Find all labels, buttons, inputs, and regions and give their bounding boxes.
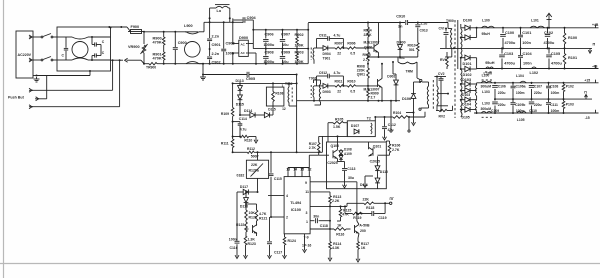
resistor R106 2.7K [386, 141, 400, 155]
diode D116 [240, 198, 249, 209]
capacitor C904 [233, 16, 257, 30]
resistor R113 2.2K [310, 192, 341, 204]
wire emitter rail [367, 56, 400, 58]
wire [237, 191, 247, 240]
wire to fuse [111, 26, 131, 32]
protection box [327, 142, 387, 189]
capacitor C [62, 37, 69, 60]
svg-text:P102: P102 [566, 84, 574, 88]
wire dc top rail [252, 29, 308, 31]
chassis arrow [546, 13, 552, 28]
diode D114 [239, 109, 255, 118]
resistor R103 [562, 99, 574, 113]
svg-text:500P: 500P [251, 154, 260, 158]
svg-text:10u: 10u [282, 60, 289, 64]
resistor R122 [236, 220, 247, 236]
svg-text:TRM: TRM [406, 70, 414, 74]
svg-text:A-50В: A-50В [359, 223, 370, 227]
wire t901 bottom [419, 108, 429, 110]
capacitor C903 100n [221, 21, 235, 64]
svg-text:C102: C102 [544, 31, 553, 35]
transformer T900 core [454, 20, 456, 118]
svg-text:RV2: RV2 [439, 115, 446, 119]
svg-text:4700u: 4700u [504, 62, 515, 66]
transformer T902 box R108 [266, 87, 284, 106]
wire over IC [288, 168, 309, 172]
EMI filter box [57, 27, 111, 71]
capacitor C110 220u [529, 99, 542, 113]
label pin 1 [282, 84, 284, 88]
wire [57, 37, 70, 60]
wire +5 rail [477, 82, 599, 84]
label L103 300uM [481, 85, 492, 112]
svg-text:P103: P103 [566, 102, 574, 106]
resistor R905 2.7 [363, 48, 371, 64]
svg-text:C103: C103 [504, 52, 513, 56]
svg-text:L102: L102 [530, 71, 539, 75]
svg-text:IC100: IC100 [291, 208, 301, 212]
node mid cell2 [314, 85, 317, 87]
pin stubs top [288, 171, 309, 176]
inductor L105a [481, 111, 492, 117]
svg-text:R112: R112 [247, 147, 255, 151]
svg-text:R104: R104 [393, 111, 401, 115]
svg-text:D116: D116 [240, 204, 248, 208]
diode D115 [236, 95, 244, 115]
terminal gnd 1 [588, 43, 595, 54]
svg-text:1.5K: 1.5K [333, 125, 341, 129]
diode D113 [236, 79, 244, 95]
svg-text:R118: R118 [366, 206, 374, 210]
svg-text:L105: L105 [517, 118, 525, 122]
svg-text:TL494: TL494 [290, 201, 302, 205]
svg-text:A109: A109 [344, 152, 352, 156]
diode D101 [460, 55, 472, 66]
svg-text:220u: 220u [534, 91, 542, 95]
capacitor C107 220u [529, 83, 542, 99]
svg-text:2.7K: 2.7K [392, 148, 400, 152]
resistor R908 220K [357, 63, 370, 86]
wire [470, 27, 478, 29]
resistor R101 [563, 48, 577, 68]
wire gnd rail from T900 [453, 47, 455, 49]
resistor R900 470K [153, 32, 166, 45]
wire [32, 59, 114, 90]
wire base q101 [378, 154, 387, 156]
svg-text:C2025: C2025 [327, 161, 337, 165]
box T2 D107 [347, 117, 375, 137]
svg-text:C2025: C2025 [370, 160, 380, 164]
pin 2 left [270, 216, 288, 220]
resistor R102 [562, 83, 574, 99]
svg-text:D106: D106 [402, 97, 411, 101]
transistor Q100 C2025 [327, 135, 339, 164]
capacitor C bottom [92, 45, 105, 61]
wire t2 out [374, 116, 384, 121]
diode D904 [317, 46, 336, 61]
svg-text:C112: C112 [388, 123, 396, 127]
svg-text:1000u: 1000u [264, 43, 275, 47]
svg-text:R100: R100 [568, 36, 577, 40]
capacitor C908 1000u [263, 49, 275, 64]
wire [257, 178, 259, 192]
ground [343, 182, 347, 189]
svg-text:C910: C910 [396, 15, 405, 19]
svg-text:100m: 100m [516, 91, 525, 95]
capacitor C102 4700u [544, 28, 555, 49]
resistor R110 [232, 135, 258, 143]
resistor R902 100K [295, 30, 304, 49]
svg-text:D115: D115 [268, 108, 276, 112]
transformer T901 core [432, 80, 434, 110]
svg-text:R121: R121 [259, 216, 267, 220]
resistor R904 220K [364, 22, 373, 49]
switch S1 [41, 34, 57, 38]
capacitor C111 100n [546, 99, 559, 113]
capacitor C100 4700u [500, 28, 516, 49]
svg-text:C115: C115 [274, 177, 282, 181]
capacitor C115 [269, 152, 282, 217]
transformer T902 winding b [314, 80, 321, 105]
svg-text:R110: R110 [244, 138, 252, 142]
svg-text:1P-16: 1P-16 [302, 243, 311, 247]
wire [203, 22, 205, 32]
choke winding top [70, 37, 92, 39]
svg-text:0182: 0182 [237, 173, 245, 177]
svg-text:30u: 30u [348, 176, 354, 180]
svg-text:22K: 22K [363, 198, 370, 202]
svg-text:R910: R910 [347, 79, 355, 83]
capacitor C907 10u [280, 30, 290, 49]
label 10-16 [302, 243, 311, 247]
wire +12 rail [477, 27, 599, 29]
svg-text:D102: D102 [463, 73, 472, 77]
ground [34, 77, 40, 82]
svg-text:D902: D902 [387, 75, 395, 79]
svg-text:4: 4 [286, 194, 288, 198]
svg-text:300uM: 300uM [481, 85, 492, 89]
capacitor CV2 [434, 72, 446, 111]
resistor R109 [221, 83, 234, 139]
wire [273, 106, 286, 115]
svg-text:470K: 470K [153, 41, 162, 45]
svg-text:47K: 47K [342, 212, 349, 216]
resistor R111 [221, 139, 234, 152]
svg-text:4.7u: 4.7u [334, 33, 341, 37]
svg-text:F900: F900 [131, 25, 140, 29]
svg-text:100n: 100n [523, 62, 532, 66]
svg-text:R905: R905 [363, 53, 371, 57]
svg-text:-15: -15 [585, 116, 590, 120]
svg-text:T900: T900 [446, 19, 454, 23]
resistor RV1 [440, 52, 448, 69]
svg-text:2.2n: 2.2n [212, 52, 220, 56]
svg-text:T901: T901 [323, 57, 331, 61]
transformer T901 primary [427, 82, 428, 108]
diode D108 [339, 148, 352, 155]
capacitor C101 100n [518, 28, 532, 49]
resistor R910 501 [400, 43, 419, 57]
svg-text:D105: D105 [462, 116, 470, 120]
pin 2 [29, 58, 33, 62]
fuse F900 [128, 25, 144, 34]
svg-text:L103: L103 [482, 102, 490, 106]
svg-text:200: 200 [360, 229, 366, 233]
capacitor C905 [203, 72, 297, 81]
svg-text:C101: C101 [522, 31, 531, 35]
svg-text:470K: 470K [153, 57, 162, 61]
inductor L100 95uH [482, 19, 495, 36]
choke L900 circle [185, 42, 201, 58]
wire sec vertical [296, 74, 298, 153]
capacitor C116 100n [229, 238, 240, 259]
svg-text:D117: D117 [240, 185, 248, 189]
capacitor C106 220u [492, 83, 506, 99]
wire to R107 [309, 155, 318, 167]
svg-text:R116: R116 [336, 233, 344, 237]
svg-text:Π: Π [593, 43, 596, 47]
IC gnd stub [303, 234, 307, 253]
svg-text:R122: R122 [236, 223, 244, 227]
svg-text:4.7u: 4.7u [240, 127, 247, 131]
label Push But [8, 96, 25, 100]
svg-text:D100: D100 [463, 19, 472, 23]
wire rail [232, 82, 297, 84]
label L900 [184, 24, 193, 28]
svg-text:1.3K: 1.3K [248, 237, 256, 241]
svg-text:100m: 100m [551, 91, 560, 95]
diode D102 [460, 58, 477, 77]
pin 1 [29, 35, 33, 39]
wire [239, 100, 241, 115]
wire bridge in bottom [232, 52, 239, 65]
capacitor C906 1000u [263, 30, 275, 49]
resistor R117 1K [356, 234, 369, 263]
svg-text:22: 22 [337, 89, 341, 93]
choke L circle [72, 42, 88, 58]
svg-text:-4B: -4B [592, 64, 598, 68]
trimmer R120a box [246, 160, 268, 178]
wire [91, 36, 111, 61]
svg-text:D101: D101 [463, 62, 472, 66]
label 7-9 [304, 236, 309, 240]
inductor L104a [481, 73, 492, 83]
diode D106 [402, 81, 421, 113]
pin 4 left [268, 194, 288, 198]
diode D110 [375, 156, 388, 174]
svg-text:100n: 100n [522, 41, 531, 45]
diode D902 [387, 61, 398, 102]
svg-text:4700u: 4700u [505, 41, 516, 45]
wire top rail [143, 31, 198, 33]
svg-text:R105: R105 [335, 117, 343, 121]
svg-text:C107: C107 [534, 85, 542, 89]
resistor RV2b [436, 105, 453, 119]
wire collector [310, 182, 359, 225]
wire hv rail [307, 23, 309, 64]
terminal -5 [585, 110, 596, 120]
resistor R909 2.7 [367, 86, 379, 101]
svg-text:R109: R109 [221, 112, 229, 116]
capacitor C910 3n [396, 15, 448, 29]
wire gnd rail 2 [494, 98, 592, 100]
resistor R906 0.5 [342, 42, 374, 56]
winding T901b [309, 77, 317, 101]
capacitor C108 100n [546, 83, 559, 99]
wire dc bottom rail [185, 63, 308, 65]
diode D100b [460, 28, 477, 40]
svg-text:2.7: 2.7 [363, 58, 368, 62]
inductor L101 [530, 19, 545, 28]
wire drv to pg2 [408, 116, 410, 132]
wire t901 terminal [420, 79, 429, 82]
wire [33, 36, 41, 38]
svg-text:2: 2 [286, 216, 288, 220]
svg-text:CV2: CV2 [438, 72, 445, 76]
svg-text:10u: 10u [282, 43, 289, 47]
svg-text:D900: D900 [239, 36, 248, 40]
wire -5 rail [474, 112, 599, 114]
inductor L103 vertical chain [475, 83, 476, 113]
svg-text:R111: R111 [221, 142, 229, 146]
svg-text:100n: 100n [229, 238, 237, 242]
svg-text:C907: C907 [281, 32, 290, 36]
diode A109 [339, 152, 352, 162]
svg-text:C911: C911 [319, 33, 327, 37]
capacitor C105 4700u [546, 48, 562, 68]
capacitor C top [92, 37, 105, 47]
resistor R912 0.5 [342, 79, 377, 93]
diode D117 [237, 185, 259, 195]
resistor R120 [245, 203, 257, 220]
svg-text:D114: D114 [244, 109, 252, 113]
svg-text:501: 501 [409, 48, 415, 52]
resistor R124 [283, 234, 296, 259]
pin labels top [286, 167, 311, 171]
transformer T900 secondary top [461, 24, 462, 69]
svg-text:22: 22 [337, 51, 341, 55]
svg-text:D104: D104 [462, 103, 472, 107]
svg-text:30n: 30n [313, 214, 319, 218]
frame bottom border [0, 263, 600, 265]
resistor R116 1K [334, 223, 351, 236]
svg-text:220u: 220u [498, 103, 506, 107]
terminal +5 [584, 79, 595, 83]
wire bridge out top [248, 30, 253, 44]
svg-text:L100: L100 [482, 73, 490, 77]
transformer T902 winding [285, 82, 297, 106]
transformer T900 shield [457, 20, 459, 69]
svg-text:L101: L101 [531, 19, 539, 23]
capacitor C106a 100n [511, 83, 526, 99]
thermistor TR900 [143, 63, 185, 70]
label Q102 [237, 173, 245, 177]
svg-text:1: 1 [306, 220, 308, 224]
svg-text:C106: C106 [498, 85, 506, 89]
svg-text:R101: R101 [568, 56, 577, 60]
transformer T902 core [291, 88, 293, 103]
svg-text:1K: 1K [361, 246, 366, 250]
varistor VR900 [128, 32, 148, 64]
svg-text:4700u: 4700u [551, 62, 562, 66]
inductor L102 95uH [484, 61, 495, 76]
choke L900 bottom arc [186, 62, 204, 64]
svg-text:C905: C905 [246, 77, 255, 81]
wire bridge out bottom [248, 53, 256, 64]
diode D115b [255, 108, 276, 118]
resistor R107 2.7K [309, 136, 320, 152]
svg-text:3: 3 [306, 211, 308, 215]
svg-text:220u: 220u [534, 103, 542, 107]
svg-text:RVl: RVl [440, 58, 446, 62]
svg-text:22K: 22K [251, 163, 258, 167]
wire [202, 63, 204, 75]
capacitor C103 4700u [499, 48, 515, 68]
svg-text:C109b: C109b [515, 103, 525, 107]
svg-text:2.2n: 2.2n [212, 35, 220, 39]
svg-text:C913: C913 [420, 29, 428, 33]
svg-text:100m: 100m [551, 109, 560, 113]
wire [406, 112, 416, 126]
resistor R100 [563, 28, 577, 49]
ground [200, 74, 206, 81]
transistor Q901 MJE13007 [364, 63, 384, 102]
wire [39, 76, 47, 99]
svg-text:C100: C100 [505, 31, 514, 35]
thermistor TR900 bottom wire [111, 58, 145, 64]
pin labels right [305, 181, 309, 224]
svg-text:CVl: CVl [439, 27, 445, 31]
capacitor C909 10u [280, 49, 290, 64]
svg-text:D103: D103 [462, 93, 470, 97]
wire collector join [357, 213, 363, 215]
svg-text:95uH: 95uH [485, 61, 495, 65]
capacitor C109b 100n [511, 99, 526, 113]
IC100 TL494 box [284, 177, 310, 234]
resistor R901 470K [153, 45, 166, 64]
svg-text:AC220V: AC220V [18, 53, 32, 57]
svg-text:C908: C908 [265, 50, 274, 54]
capacitor C113 30u [341, 162, 356, 182]
node mid cell1 [314, 47, 317, 49]
transformer T900 primary [445, 23, 452, 58]
diode D903 [317, 84, 336, 94]
capacitor C118 30n [310, 214, 331, 228]
capacitor C911 4.7u [317, 33, 344, 48]
svg-text:R906: R906 [347, 42, 355, 46]
svg-text:1000u: 1000u [264, 60, 275, 64]
svg-text:2.7K: 2.7K [309, 146, 317, 150]
transistor Q103a [246, 221, 257, 236]
wire -12 rail [477, 68, 599, 70]
capacitor C114 4.7u [232, 117, 247, 137]
label Lo [217, 9, 222, 13]
diode D103b [460, 84, 477, 97]
diode D103a [460, 78, 471, 87]
svg-text:47u: 47u [388, 128, 394, 132]
capacitor C901 2.2n [207, 22, 220, 47]
choke L900 top arc [185, 32, 204, 34]
resistor R911 22 [335, 79, 344, 93]
switch S2 [41, 57, 57, 61]
svg-text:C108: C108 [550, 85, 558, 89]
svg-text:C901: C901 [212, 43, 221, 47]
svg-text:Q101: Q101 [373, 145, 382, 149]
transformer T900 secondary lower [461, 69, 462, 117]
capacitor C104 100n [518, 48, 532, 68]
svg-text:TR900: TR900 [146, 66, 156, 70]
inductor L105 [517, 111, 527, 122]
